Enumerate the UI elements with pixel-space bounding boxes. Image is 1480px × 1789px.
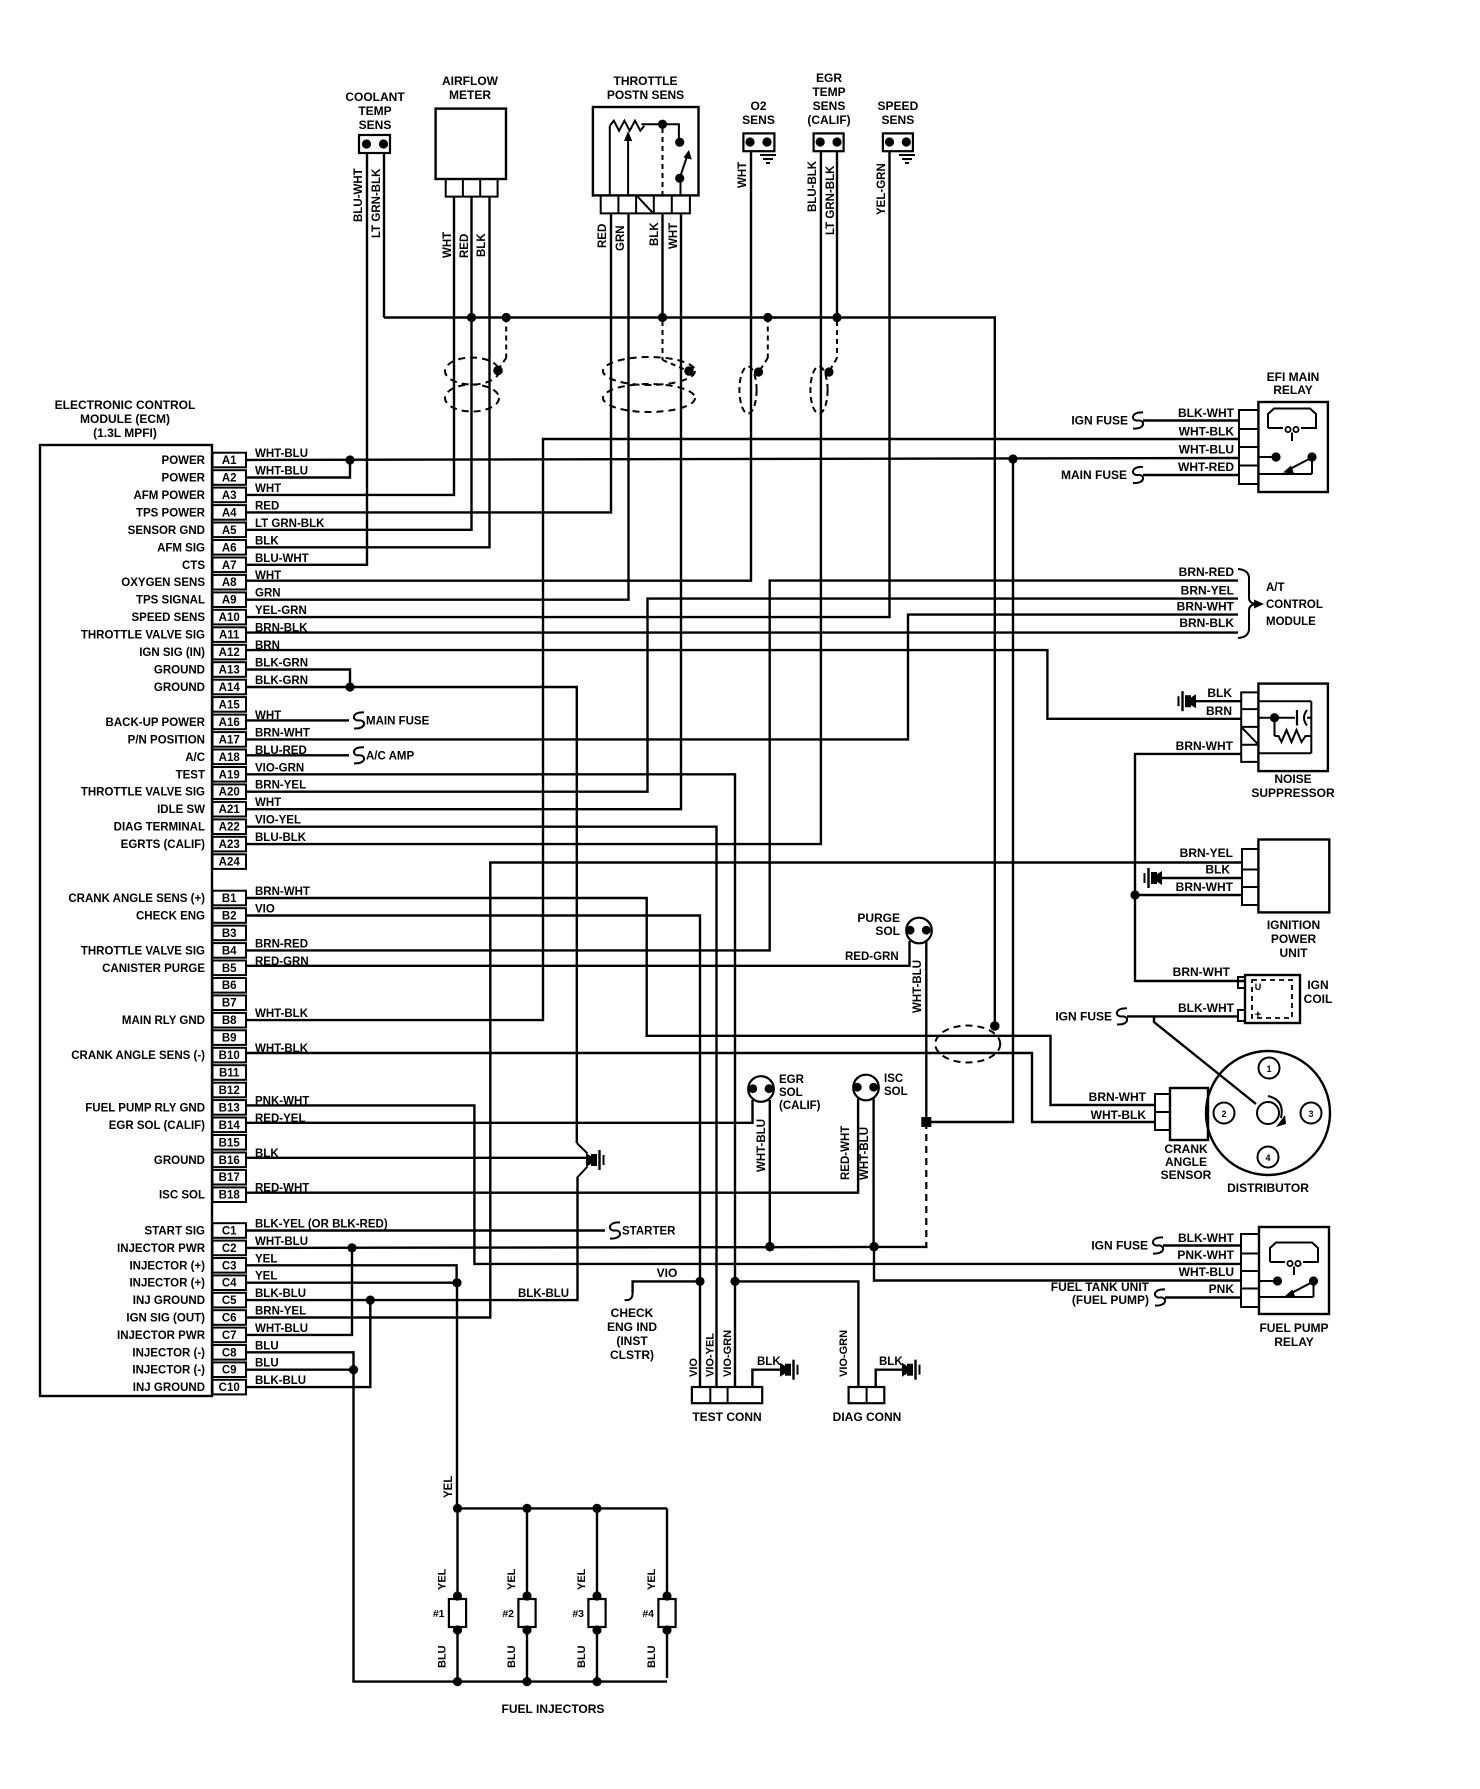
- svg-text:PURGE: PURGE: [857, 911, 900, 925]
- svg-text:THROTTLE VALVE SIG: THROTTLE VALVE SIG: [81, 787, 205, 799]
- fuel injector #3: [572, 1504, 605, 1686]
- svg-text:GROUND: GROUND: [154, 682, 205, 694]
- crank shield loop: [935, 1026, 1000, 1063]
- svg-text:A15: A15: [219, 699, 241, 711]
- junction A1/A2: [345, 455, 354, 464]
- svg-text:CTS: CTS: [182, 560, 205, 572]
- pin C9 INJECTOR (-): [132, 1358, 278, 1377]
- svg-text:BLK: BLK: [757, 1356, 781, 1368]
- svg-text:WHT-BLU: WHT-BLU: [255, 1236, 308, 1248]
- svg-text:A18: A18: [219, 752, 241, 764]
- svg-text:UNIT: UNIT: [1280, 946, 1309, 960]
- svg-text:CRANK ANGLE SENS (-): CRANK ANGLE SENS (-): [71, 1050, 205, 1062]
- wire CTS BLU-WHT to A7: [246, 153, 367, 565]
- svg-text:THROTTLE VALVE SIG: THROTTLE VALVE SIG: [81, 630, 205, 642]
- svg-text:B7: B7: [222, 998, 237, 1010]
- label WHT-BLK: [1091, 1108, 1147, 1122]
- svg-text:WHT-BLK: WHT-BLK: [1179, 425, 1235, 439]
- svg-text:BRN-YEL: BRN-YEL: [255, 1306, 306, 1318]
- svg-text:WHT-BLK: WHT-BLK: [255, 1008, 309, 1020]
- label GRN: [615, 225, 627, 251]
- svg-text:YEL-GRN: YEL-GRN: [255, 605, 307, 617]
- label BLK: [476, 233, 488, 257]
- wire WHT-BLU to fuel pump relay: [874, 1247, 1241, 1281]
- svg-text:BRN-WHT: BRN-WHT: [1176, 739, 1234, 753]
- svg-text:GROUND: GROUND: [154, 665, 205, 677]
- svg-text:B13: B13: [219, 1102, 240, 1114]
- speed sensor: [878, 99, 919, 163]
- MAIN FUSE feed (EFI relay): [1061, 467, 1239, 483]
- label BRN-WHT: [1176, 739, 1234, 753]
- svg-text:BLK: BLK: [879, 1356, 903, 1368]
- distributor: [1206, 1051, 1330, 1195]
- pin B8 MAIN RLY GND: [122, 1008, 309, 1027]
- coil secondary to distributor rotor: [1154, 1016, 1256, 1104]
- sensor ground bus LT GRN-BLK: [384, 318, 995, 1024]
- svg-text:C10: C10: [219, 1382, 240, 1394]
- svg-text:FUEL TANK UNIT: FUEL TANK UNIT: [1051, 1280, 1150, 1294]
- svg-text:EGR: EGR: [816, 71, 842, 85]
- wire A13 BLK-GRN hook: [246, 670, 350, 688]
- crank angle sensor: [1155, 1088, 1212, 1182]
- svg-text:BRN-WHT: BRN-WHT: [1177, 600, 1235, 614]
- svg-text:YEL: YEL: [443, 1476, 455, 1498]
- TPS wiper arrow: [624, 131, 632, 195]
- pin A20 THROTTLE VALVE SIG: [81, 780, 306, 799]
- svg-text:(INST: (INST: [616, 1334, 648, 1348]
- svg-text:STARTER: STARTER: [622, 1226, 676, 1238]
- svg-text:TPS POWER: TPS POWER: [136, 507, 206, 519]
- svg-text:ISC: ISC: [884, 1073, 903, 1085]
- svg-text:DIAG TERMINAL: DIAG TERMINAL: [114, 822, 205, 834]
- wire B1 BRN-WHT to crank sensor: [246, 898, 1155, 1105]
- TPS switch: [675, 138, 692, 196]
- pin A10 SPEED SENS: [132, 605, 307, 624]
- svg-text:C7: C7: [222, 1330, 237, 1342]
- TPS shield drain: [663, 321, 694, 376]
- label WHT: [668, 223, 680, 249]
- svg-text:C8: C8: [222, 1347, 237, 1359]
- svg-text:FUEL PUMP RLY GND: FUEL PUMP RLY GND: [85, 1102, 205, 1114]
- pin C2 INJECTOR PWR: [117, 1236, 308, 1255]
- wire TPS RED to A4: [246, 213, 611, 512]
- label BRN-WHT: [1176, 880, 1234, 894]
- injector BLU bus: [458, 1680, 668, 1682]
- wire TPS GRN to A9: [246, 213, 629, 599]
- bus drain to crank shield: [990, 1021, 1000, 1031]
- O2 shield drain: [754, 313, 773, 377]
- test conn BLK ground: [752, 1356, 797, 1387]
- FUEL INJECTORS label: [502, 1702, 605, 1716]
- svg-text:AIRFLOW: AIRFLOW: [442, 74, 499, 88]
- label WHT: [442, 232, 454, 258]
- svg-text:B18: B18: [219, 1190, 241, 1202]
- svg-text:LT GRN-BLK: LT GRN-BLK: [371, 168, 383, 238]
- svg-text:INJECTOR (+): INJECTOR (+): [129, 1278, 205, 1290]
- MAIN FUSE stub A16: [246, 712, 430, 728]
- svg-text:(1.3L MPFI): (1.3L MPFI): [93, 426, 157, 440]
- svg-text:BLK-BLU: BLK-BLU: [255, 1375, 306, 1387]
- svg-text:CLSTR): CLSTR): [610, 1348, 654, 1362]
- label WHT-BLU (ISC): [859, 1127, 871, 1180]
- svg-text:RED-GRN: RED-GRN: [845, 951, 899, 963]
- pin A1 POWER: [162, 448, 308, 467]
- pin A13 GROUND: [154, 658, 308, 677]
- svg-text:A23: A23: [219, 839, 240, 851]
- svg-text:PNK: PNK: [1209, 1282, 1235, 1296]
- pin C8 INJECTOR (-): [132, 1340, 278, 1359]
- svg-text:EFI MAIN: EFI MAIN: [1267, 370, 1320, 384]
- wire A11 BRN-BLK to A/T: [246, 631, 1238, 633]
- svg-text:PNK-WHT: PNK-WHT: [1177, 1248, 1234, 1262]
- fuel pump relay coil: [1270, 1243, 1318, 1276]
- svg-text:RELAY: RELAY: [1274, 1335, 1314, 1349]
- svg-text:INJECTOR PWR: INJECTOR PWR: [117, 1330, 206, 1342]
- injector BLU return: [354, 1370, 458, 1682]
- svg-text:TEST: TEST: [176, 769, 205, 781]
- svg-text:RED: RED: [459, 234, 471, 258]
- svg-text:BRN-RED: BRN-RED: [255, 938, 308, 950]
- ISC solenoid: [853, 1073, 908, 1100]
- svg-text:A/T: A/T: [1266, 582, 1285, 594]
- wire A19 VIO-GRN to test/diag conn: [246, 774, 735, 1387]
- svg-text:BLK-BLU: BLK-BLU: [518, 1288, 569, 1300]
- svg-text:MAIN FUSE: MAIN FUSE: [366, 715, 430, 727]
- wire AFM WHT to A3: [246, 197, 454, 495]
- svg-text:CHECK: CHECK: [611, 1306, 654, 1320]
- wire AFM BLK to A6: [246, 197, 490, 548]
- wire C3 YEL: [246, 1265, 457, 1282]
- label BLK-WHT: [1178, 406, 1235, 420]
- pin B15: [213, 1135, 247, 1150]
- pin C5 INJ GROUND: [133, 1288, 306, 1307]
- pin A2 POWER: [162, 466, 308, 485]
- pin A12 IGN SIG (IN): [139, 640, 280, 659]
- wire C5 stub: [246, 1296, 375, 1305]
- svg-text:MODULE: MODULE: [1266, 616, 1316, 628]
- svg-text:CHECK ENG: CHECK ENG: [136, 911, 205, 923]
- svg-text:BRN-WHT: BRN-WHT: [255, 727, 310, 739]
- svg-text:BRN-WHT: BRN-WHT: [1173, 965, 1231, 979]
- svg-text:METER: METER: [449, 88, 491, 102]
- svg-text:FUEL INJECTORS: FUEL INJECTORS: [502, 1702, 605, 1716]
- junction ISC sol WHT-BLU: [869, 1242, 878, 1251]
- svg-text:A6: A6: [222, 542, 237, 554]
- svg-text:2: 2: [1221, 1109, 1226, 1119]
- svg-text:MAIN RLY GND: MAIN RLY GND: [122, 1015, 205, 1027]
- svg-text:VIO-YEL: VIO-YEL: [255, 815, 301, 827]
- pin C6 IGN SIG (OUT): [126, 1306, 306, 1325]
- svg-text:BLU-BLK: BLU-BLK: [255, 832, 307, 844]
- svg-text:WHT-BLK: WHT-BLK: [1091, 1108, 1147, 1122]
- svg-text:(FUEL PUMP): (FUEL PUMP): [1072, 1293, 1149, 1307]
- wire TPS BLK to bus: [658, 213, 667, 322]
- svg-text:O2: O2: [750, 99, 766, 113]
- svg-text:WHT: WHT: [255, 797, 281, 809]
- IGN FUSE feed (fuel pump relay): [1091, 1237, 1241, 1253]
- svg-text:A1: A1: [222, 455, 237, 467]
- svg-text:A24: A24: [219, 857, 241, 869]
- wire WHT-BLK relay to B8: [246, 439, 1239, 1020]
- label PNK: [1209, 1282, 1235, 1296]
- svg-text:SENS: SENS: [359, 118, 392, 132]
- label WHT: [737, 162, 749, 188]
- wire purge sol WHT-BLU down: [926, 941, 927, 1247]
- svg-text:BRN-YEL: BRN-YEL: [255, 780, 306, 792]
- svg-text:IGNITION: IGNITION: [1267, 918, 1320, 932]
- O2 sensor: [742, 99, 776, 163]
- wire C7 WHT-BLU hook: [246, 1248, 352, 1335]
- svg-text:U: U: [1255, 982, 1262, 992]
- svg-text:BLU-BLK: BLU-BLK: [807, 160, 819, 212]
- throttle position sensor TPS: [593, 74, 699, 213]
- fuel pump relay: [1241, 1227, 1329, 1349]
- svg-text:BLK-WHT: BLK-WHT: [1178, 1231, 1235, 1245]
- svg-text:VIO-GRN: VIO-GRN: [722, 1330, 734, 1377]
- pin B14 EGR SOL (CALIF): [109, 1113, 306, 1132]
- svg-text:LT GRN-BLK: LT GRN-BLK: [825, 165, 837, 235]
- wire WHT-BLU A1/A2 to relay: [246, 458, 1239, 460]
- svg-text:A19: A19: [219, 769, 240, 781]
- pin C3 INJECTOR (+): [129, 1253, 277, 1272]
- svg-text:TPS SIGNAL: TPS SIGNAL: [136, 595, 205, 607]
- wire CTS LT GRN-BLK to sensor-ground bus: [383, 153, 385, 318]
- pin B16 GROUND: [154, 1148, 279, 1167]
- svg-text:BACK-UP POWER: BACK-UP POWER: [106, 717, 206, 729]
- svg-text:SENSOR GND: SENSOR GND: [128, 525, 205, 537]
- wire EGRTS BLU-BLK to A23: [246, 151, 821, 844]
- svg-text:INJECTOR (+): INJECTOR (+): [129, 1260, 205, 1272]
- svg-text:YEL: YEL: [255, 1271, 277, 1283]
- svg-text:YEL: YEL: [576, 1568, 588, 1590]
- STARTER stub C1: [246, 1222, 676, 1238]
- pin B7: [213, 995, 247, 1010]
- svg-text:AFM SIG: AFM SIG: [157, 542, 205, 554]
- svg-text:B12: B12: [219, 1085, 240, 1097]
- label BLK: [649, 222, 661, 246]
- pin B1 CRANK ANGLE SENS (+): [68, 886, 310, 905]
- svg-text:IGN SIG (IN): IGN SIG (IN): [139, 647, 205, 659]
- pin A21 IDLE SW: [157, 797, 281, 816]
- pin B17: [213, 1170, 247, 1185]
- label VIO: [688, 1358, 700, 1377]
- wire A14 BLK-GRN to ground: [246, 687, 577, 1143]
- svg-text:B17: B17: [219, 1172, 240, 1184]
- svg-text:THROTTLE VALVE SIG: THROTTLE VALVE SIG: [81, 945, 205, 957]
- svg-text:B11: B11: [219, 1068, 240, 1080]
- svg-text:BRN-BLK: BRN-BLK: [1179, 616, 1234, 630]
- svg-text:SENS: SENS: [813, 99, 846, 113]
- EFI relay switch: [1258, 452, 1316, 474]
- wire TPS WHT to A21: [246, 213, 681, 809]
- svg-text:B15: B15: [219, 1137, 241, 1149]
- svg-text:A22: A22: [219, 822, 240, 834]
- wire B5 RED-GRN to purge sol: [246, 941, 910, 966]
- pin A7 CTS: [182, 553, 309, 572]
- svg-text:BLU: BLU: [255, 1358, 279, 1370]
- svg-text:C4: C4: [222, 1278, 237, 1290]
- wire C2 WHT-BLU: [246, 1247, 928, 1248]
- svg-text:MAIN FUSE: MAIN FUSE: [1061, 468, 1127, 482]
- pin B18 ISC SOL: [159, 1183, 309, 1202]
- svg-text:WHT: WHT: [442, 232, 454, 258]
- ground (noise suppressor BLK): [1179, 691, 1242, 711]
- A/C AMP stub A18: [246, 747, 414, 763]
- svg-text:B3: B3: [222, 928, 237, 940]
- svg-text:#1: #1: [433, 1608, 445, 1620]
- pin B10 CRANK ANGLE SENS (-): [71, 1043, 308, 1062]
- wire A17 BRN-WHT to A/T: [246, 615, 1238, 740]
- junction EGR sol WHT-BLU: [765, 1242, 774, 1251]
- svg-text:BLK: BLK: [255, 535, 279, 547]
- CHECK ENG IND label: [607, 1306, 657, 1362]
- svg-text:OXYGEN SENS: OXYGEN SENS: [121, 577, 205, 589]
- svg-text:TEST CONN: TEST CONN: [692, 1410, 761, 1424]
- pin A9 TPS SIGNAL: [136, 588, 281, 607]
- junction C8/C9: [349, 1365, 358, 1374]
- svg-text:BLU: BLU: [437, 1645, 449, 1668]
- wire B16 BLK to ground: [246, 1157, 586, 1159]
- svg-text:A8: A8: [222, 577, 237, 589]
- svg-text:IGN FUSE: IGN FUSE: [1055, 1010, 1112, 1024]
- svg-text:TEMP: TEMP: [812, 85, 845, 99]
- wire O2 WHT to A8: [246, 151, 751, 581]
- svg-text:A12: A12: [219, 647, 240, 659]
- pin A17 P/N POSITION: [128, 727, 310, 746]
- svg-text:#2: #2: [502, 1608, 514, 1620]
- fuel pump relay switch: [1259, 1276, 1318, 1297]
- label BLK-WHT: [1178, 1231, 1235, 1245]
- wire C10 to C5: [246, 1300, 370, 1387]
- label WHT-BLU (EGR sol): [756, 1119, 768, 1172]
- svg-text:ENG IND: ENG IND: [607, 1320, 657, 1334]
- svg-text:RED-WHT: RED-WHT: [840, 1126, 852, 1180]
- label WHT-BLU (purge): [912, 960, 924, 1013]
- pin A8 OXYGEN SENS: [121, 570, 281, 589]
- pin B2 CHECK ENG: [136, 904, 275, 923]
- TPS internal node: [641, 120, 679, 140]
- svg-text:C3: C3: [222, 1260, 237, 1272]
- svg-text:CANISTER PURGE: CANISTER PURGE: [102, 963, 205, 975]
- svg-text:B10: B10: [219, 1050, 240, 1062]
- svg-text:A2: A2: [222, 473, 237, 485]
- A/T control module brace: [1238, 569, 1323, 638]
- pin A6 AFM SIG: [157, 535, 279, 554]
- svg-text:IGN: IGN: [1307, 978, 1328, 992]
- label BRN: [1206, 704, 1232, 718]
- svg-text:B2: B2: [222, 911, 237, 923]
- svg-text:WHT: WHT: [255, 483, 281, 495]
- svg-text:WHT: WHT: [737, 162, 749, 188]
- svg-text:NOISE: NOISE: [1274, 772, 1311, 786]
- svg-text:WHT-BLU: WHT-BLU: [859, 1127, 871, 1180]
- svg-text:A16: A16: [219, 717, 240, 729]
- pin A18 A/C: [185, 745, 307, 764]
- label LT GRN-BLK: [825, 165, 837, 235]
- label RED-WHT (ISC): [840, 1126, 852, 1180]
- svg-text:(CALIF): (CALIF): [779, 1100, 821, 1112]
- TPS shield loop: [603, 357, 695, 412]
- svg-text:C2: C2: [222, 1243, 237, 1255]
- svg-text:SENSOR: SENSOR: [1161, 1168, 1212, 1182]
- svg-text:CRANK: CRANK: [1164, 1142, 1208, 1156]
- pin C10 INJ GROUND: [133, 1375, 306, 1394]
- svg-text:SENS: SENS: [882, 113, 915, 127]
- wire B13 PNK-WHT to fuel pump relay: [246, 1105, 1241, 1264]
- AFM shield drain: [493, 313, 511, 375]
- svg-text:TEMP: TEMP: [358, 104, 391, 118]
- svg-text:A10: A10: [219, 612, 240, 624]
- label RED: [459, 234, 471, 258]
- label BRN-YEL: [1181, 584, 1234, 598]
- svg-text:WHT-BLU: WHT-BLU: [912, 960, 924, 1013]
- O2 shield loop: [739, 367, 756, 414]
- wire C6 BRN-YEL to ignition power unit: [246, 863, 1242, 1318]
- purge solenoid: [857, 911, 931, 943]
- svg-text:ANGLE: ANGLE: [1165, 1155, 1207, 1169]
- junction VIO-GRN: [730, 1277, 739, 1286]
- wire B2 VIO down: [246, 916, 700, 1388]
- pin A23 EGRTS (CALIF): [121, 832, 307, 851]
- svg-text:B9: B9: [222, 1033, 237, 1045]
- svg-text:3: 3: [1308, 1109, 1313, 1119]
- pin A14 GROUND: [154, 675, 308, 694]
- noise suppressor internals: [1258, 701, 1311, 753]
- wire C5/C10 BLK-BLU to ground: [370, 1178, 577, 1300]
- svg-text:THROTTLE: THROTTLE: [614, 74, 678, 88]
- svg-text:SPEED: SPEED: [878, 99, 919, 113]
- svg-text:BRN-YEL: BRN-YEL: [1181, 584, 1234, 598]
- svg-text:WHT-BLU: WHT-BLU: [1179, 1265, 1234, 1279]
- pin B9: [213, 1030, 247, 1045]
- injector YEL feed: [456, 1283, 458, 1509]
- svg-text:YEL: YEL: [437, 1568, 449, 1590]
- svg-text:SUPPRESSOR: SUPPRESSOR: [1251, 786, 1335, 800]
- svg-text:WHT-BLU: WHT-BLU: [255, 1323, 308, 1335]
- EGRTS shield drain: [824, 321, 837, 377]
- svg-text:ISC SOL: ISC SOL: [159, 1190, 205, 1202]
- ground (ign power unit BLK): [1145, 868, 1243, 888]
- svg-text:INJECTOR PWR: INJECTOR PWR: [117, 1243, 206, 1255]
- svg-text:B16: B16: [219, 1155, 240, 1167]
- svg-text:DIAG CONN: DIAG CONN: [833, 1410, 902, 1424]
- TPS resistor: [610, 121, 644, 196]
- svg-text:BRN-WHT: BRN-WHT: [1176, 880, 1234, 894]
- svg-text:BLK: BLK: [649, 222, 661, 246]
- label LT GRN-BLK: [371, 168, 383, 238]
- svg-text:START SIG: START SIG: [145, 1226, 206, 1238]
- svg-text:YEL: YEL: [255, 1253, 277, 1265]
- svg-text:B1: B1: [222, 893, 237, 905]
- junction A13/A14: [345, 682, 354, 691]
- EGR solenoid: [748, 1074, 820, 1112]
- wire EGR sol WHT-BLU down: [769, 1100, 771, 1247]
- pin A3 AFM POWER: [133, 483, 281, 502]
- svg-text:4: 4: [1265, 1153, 1270, 1163]
- svg-text:BLK: BLK: [1205, 863, 1230, 877]
- svg-text:A/C AMP: A/C AMP: [366, 750, 414, 762]
- label RED-GRN: [845, 951, 899, 963]
- svg-text:C5: C5: [222, 1295, 237, 1307]
- svg-text:BLU-WHT: BLU-WHT: [353, 168, 365, 222]
- EFI relay coil: [1268, 409, 1316, 442]
- svg-text:LT GRN-BLK: LT GRN-BLK: [255, 518, 325, 530]
- svg-text:VIO-YEL: VIO-YEL: [705, 1333, 717, 1377]
- svg-text:C6: C6: [222, 1313, 237, 1325]
- svg-text:CONTROL: CONTROL: [1266, 599, 1323, 611]
- svg-text:INJECTOR (-): INJECTOR (-): [132, 1365, 205, 1377]
- svg-text:+: +: [1255, 1009, 1261, 1021]
